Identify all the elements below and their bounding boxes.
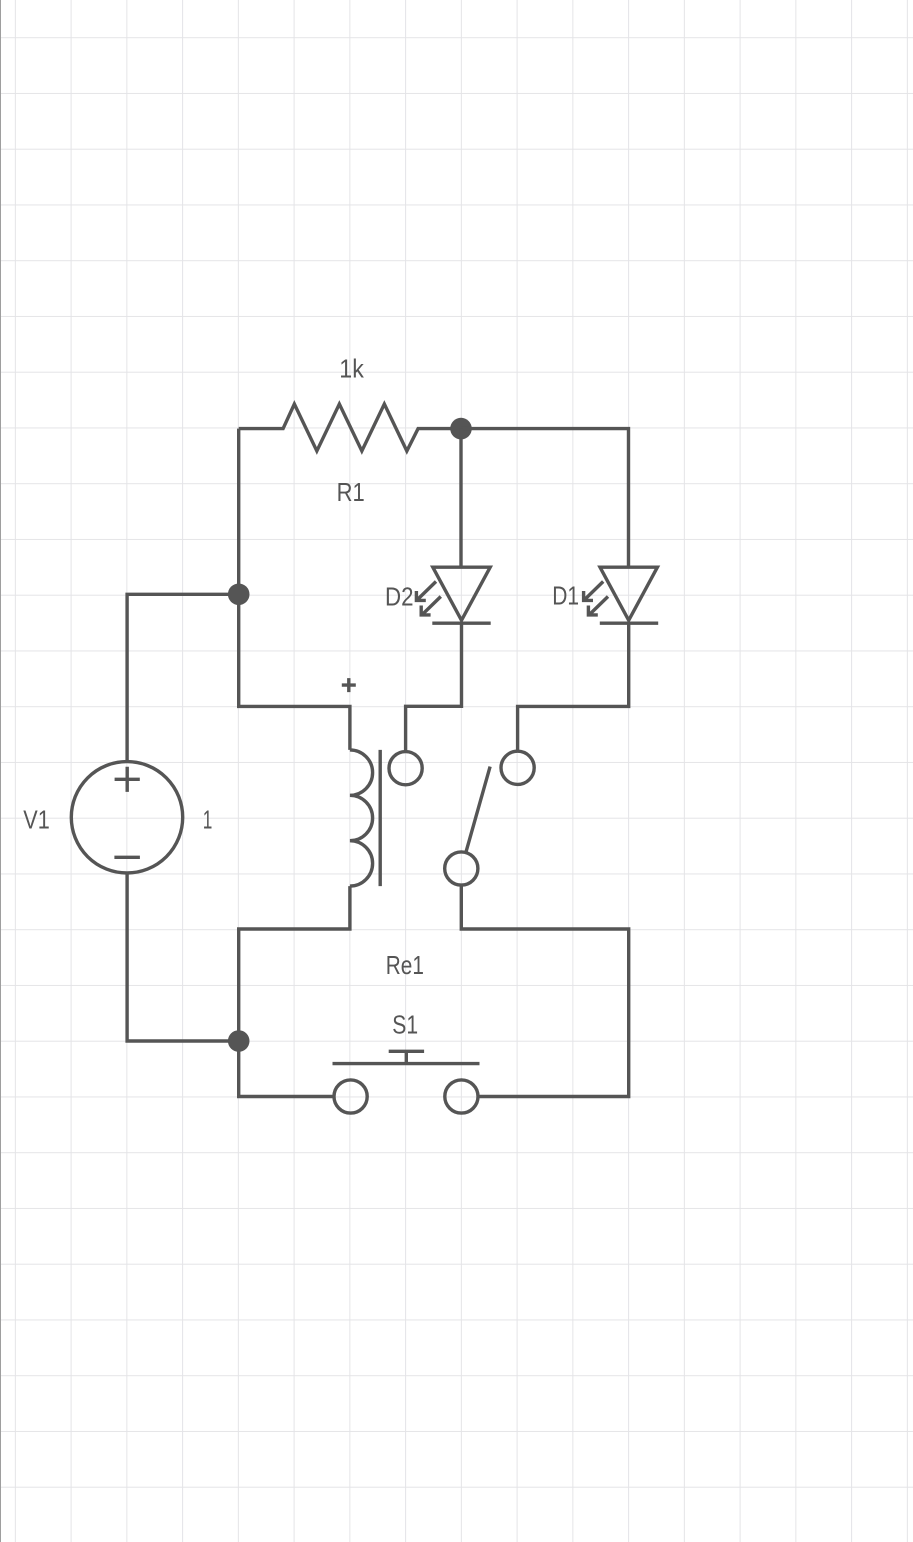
pushbutton S1 (333, 1051, 480, 1113)
wire: relay switch bottom lead right and down to S1 right terminal (461, 885, 628, 1096)
svg-text:D1: D1 (552, 580, 579, 610)
svg-text:Re1: Re1 (386, 950, 424, 980)
LED D2 (416, 567, 490, 623)
wire: D2 cathode to relay coil right terminal (406, 623, 462, 751)
svg-text:1: 1 (203, 805, 213, 835)
svg-text:D2: D2 (385, 582, 414, 612)
wire: V1 positive lead up and right to node A (127, 594, 239, 761)
wire: V1 negative lead down and right to node C (127, 873, 239, 1041)
svg-text:R1: R1 (337, 477, 365, 507)
svg-text:S1: S1 (392, 1010, 418, 1040)
wire: node B right to D1 anode (461, 429, 629, 567)
wire: D1 cathode to relay switch top terminal (518, 623, 629, 751)
wire: left branch from resistor R1 left end down to relay coil top lead (239, 429, 350, 750)
LED D1 (584, 567, 659, 623)
node B: junction at resistor R1 right end (450, 418, 472, 440)
svg-text:1k: 1k (339, 354, 364, 384)
node C: junction of V1- with left rail (228, 1030, 250, 1052)
voltage source V1 (71, 762, 182, 873)
wire: node B down to D2 anode (459, 429, 462, 567)
relay Re1 coil (342, 678, 422, 886)
relay Re1 switch (445, 751, 534, 885)
svg-text:V1: V1 (23, 805, 50, 835)
resistor R1 (239, 404, 461, 451)
node A: junction of V1+ with left branch (228, 584, 250, 606)
wire: relay coil bottom lead to left rail and down to S1 left terminal (239, 886, 350, 1096)
